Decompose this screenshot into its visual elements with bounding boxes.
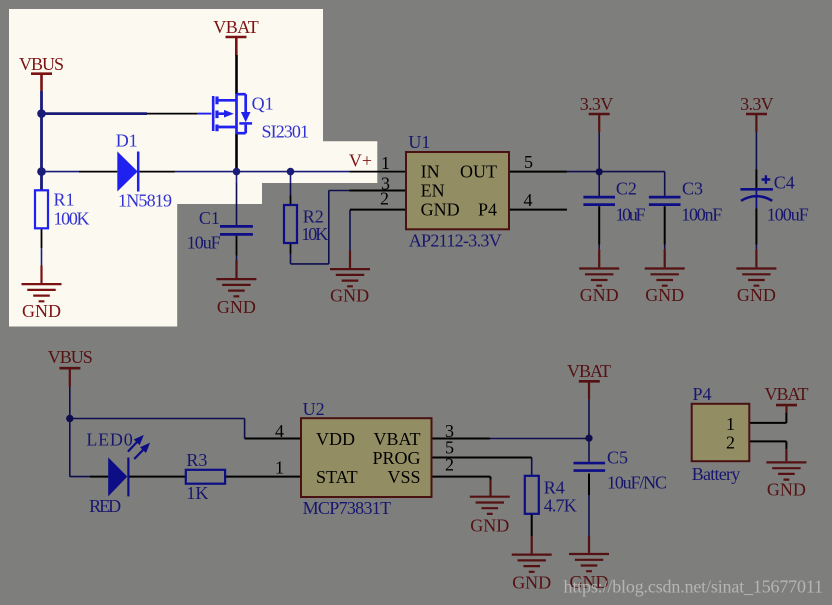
svg-text:10uF: 10uF (187, 233, 221, 253)
svg-text:1: 1 (726, 414, 735, 434)
svg-text:GND: GND (217, 297, 256, 317)
svg-text:GND: GND (580, 285, 619, 305)
svg-text:10uF/NC: 10uF/NC (607, 473, 667, 493)
svg-text:100nF: 100nF (681, 204, 722, 224)
svg-text:4.7K: 4.7K (544, 496, 577, 516)
svg-text:4: 4 (524, 190, 533, 210)
svg-text:VBUS: VBUS (48, 347, 93, 367)
svg-text:VBAT: VBAT (213, 17, 259, 37)
svg-text:GND: GND (330, 286, 369, 306)
svg-text:GND: GND (470, 515, 509, 535)
svg-text:R4: R4 (544, 478, 565, 498)
svg-text:SI2301: SI2301 (262, 122, 310, 142)
svg-text:R1: R1 (54, 190, 75, 210)
svg-text:C4: C4 (774, 173, 795, 193)
svg-text:10uF: 10uF (616, 204, 646, 224)
svg-text:100K: 100K (54, 209, 90, 229)
svg-text:R3: R3 (186, 450, 207, 470)
svg-text:GND: GND (22, 301, 61, 321)
svg-text:VDD: VDD (316, 429, 355, 449)
svg-text:GND: GND (645, 285, 684, 305)
svg-text:VBAT: VBAT (567, 361, 611, 381)
svg-text:IN: IN (421, 162, 440, 182)
svg-text:1K: 1K (186, 483, 208, 503)
svg-text:P4: P4 (693, 384, 712, 404)
svg-text:GND: GND (767, 480, 806, 500)
svg-text:D1: D1 (116, 131, 138, 151)
svg-text:C5: C5 (607, 448, 628, 468)
svg-text:1: 1 (381, 153, 390, 173)
svg-text:MCP73831T: MCP73831T (303, 498, 392, 518)
svg-text:GND: GND (737, 285, 776, 305)
svg-text:Battery: Battery (692, 464, 741, 484)
svg-text:Q1: Q1 (252, 94, 274, 114)
svg-text:https://blog.csdn.net/sinat_15: https://blog.csdn.net/sinat_15677011 (564, 577, 824, 597)
svg-text:STAT: STAT (316, 467, 358, 487)
svg-text:10K: 10K (301, 224, 328, 244)
svg-text:2: 2 (380, 189, 389, 209)
svg-text:PROG: PROG (372, 448, 420, 468)
svg-text:V+: V+ (349, 151, 372, 171)
svg-text:C3: C3 (682, 178, 703, 198)
svg-text:RED: RED (89, 496, 121, 516)
svg-text:1: 1 (275, 458, 284, 478)
svg-text:5: 5 (524, 152, 533, 172)
svg-text:100uF: 100uF (767, 205, 809, 225)
svg-text:P4: P4 (478, 200, 497, 220)
svg-text:C2: C2 (616, 178, 637, 198)
svg-text:AP2112-3.3V: AP2112-3.3V (409, 231, 502, 251)
svg-text:GND: GND (512, 573, 551, 593)
svg-text:EN: EN (421, 181, 445, 201)
svg-text:U1: U1 (408, 132, 430, 152)
svg-text:VSS: VSS (387, 467, 420, 487)
svg-text:LED0: LED0 (86, 430, 132, 450)
svg-text:VBAT: VBAT (373, 429, 420, 449)
svg-text:GND: GND (421, 200, 460, 220)
svg-text:3.3V: 3.3V (740, 94, 774, 114)
svg-text:C1: C1 (199, 208, 220, 228)
svg-text:VBAT: VBAT (765, 384, 809, 404)
svg-text:U2: U2 (303, 399, 325, 419)
svg-text:2: 2 (445, 455, 454, 475)
svg-text:OUT: OUT (460, 162, 497, 182)
svg-text:4: 4 (275, 421, 284, 441)
svg-text:2: 2 (726, 433, 735, 453)
svg-text:1N5819: 1N5819 (118, 191, 172, 211)
svg-text:3.3V: 3.3V (580, 94, 614, 114)
svg-text:VBUS: VBUS (19, 54, 64, 74)
